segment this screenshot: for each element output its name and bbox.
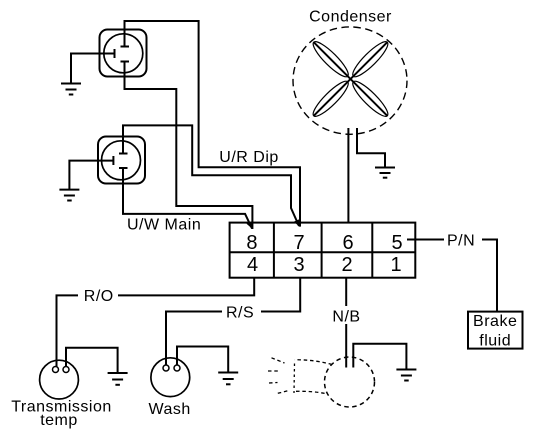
svg-text:2: 2 <box>341 254 352 276</box>
svg-text:3: 3 <box>293 254 304 276</box>
svg-text:5: 5 <box>391 232 402 254</box>
svg-text:4: 4 <box>247 254 258 276</box>
svg-text:R/S: R/S <box>226 304 254 321</box>
svg-text:N/B: N/B <box>332 309 360 326</box>
svg-text:fluid: fluid <box>479 332 511 349</box>
svg-text:8: 8 <box>246 232 257 254</box>
svg-text:6: 6 <box>342 232 353 254</box>
svg-text:U/W Main: U/W Main <box>127 217 201 234</box>
svg-text:temp: temp <box>40 412 78 429</box>
svg-text:R/O: R/O <box>84 288 114 305</box>
svg-text:1: 1 <box>390 254 401 276</box>
svg-text:P/N: P/N <box>447 232 475 249</box>
svg-text:Brake: Brake <box>473 313 517 330</box>
svg-text:Wash: Wash <box>149 401 191 418</box>
svg-text:U/R Dip: U/R Dip <box>219 149 279 166</box>
svg-text:Condenser: Condenser <box>309 9 392 26</box>
svg-text:7: 7 <box>293 232 304 254</box>
